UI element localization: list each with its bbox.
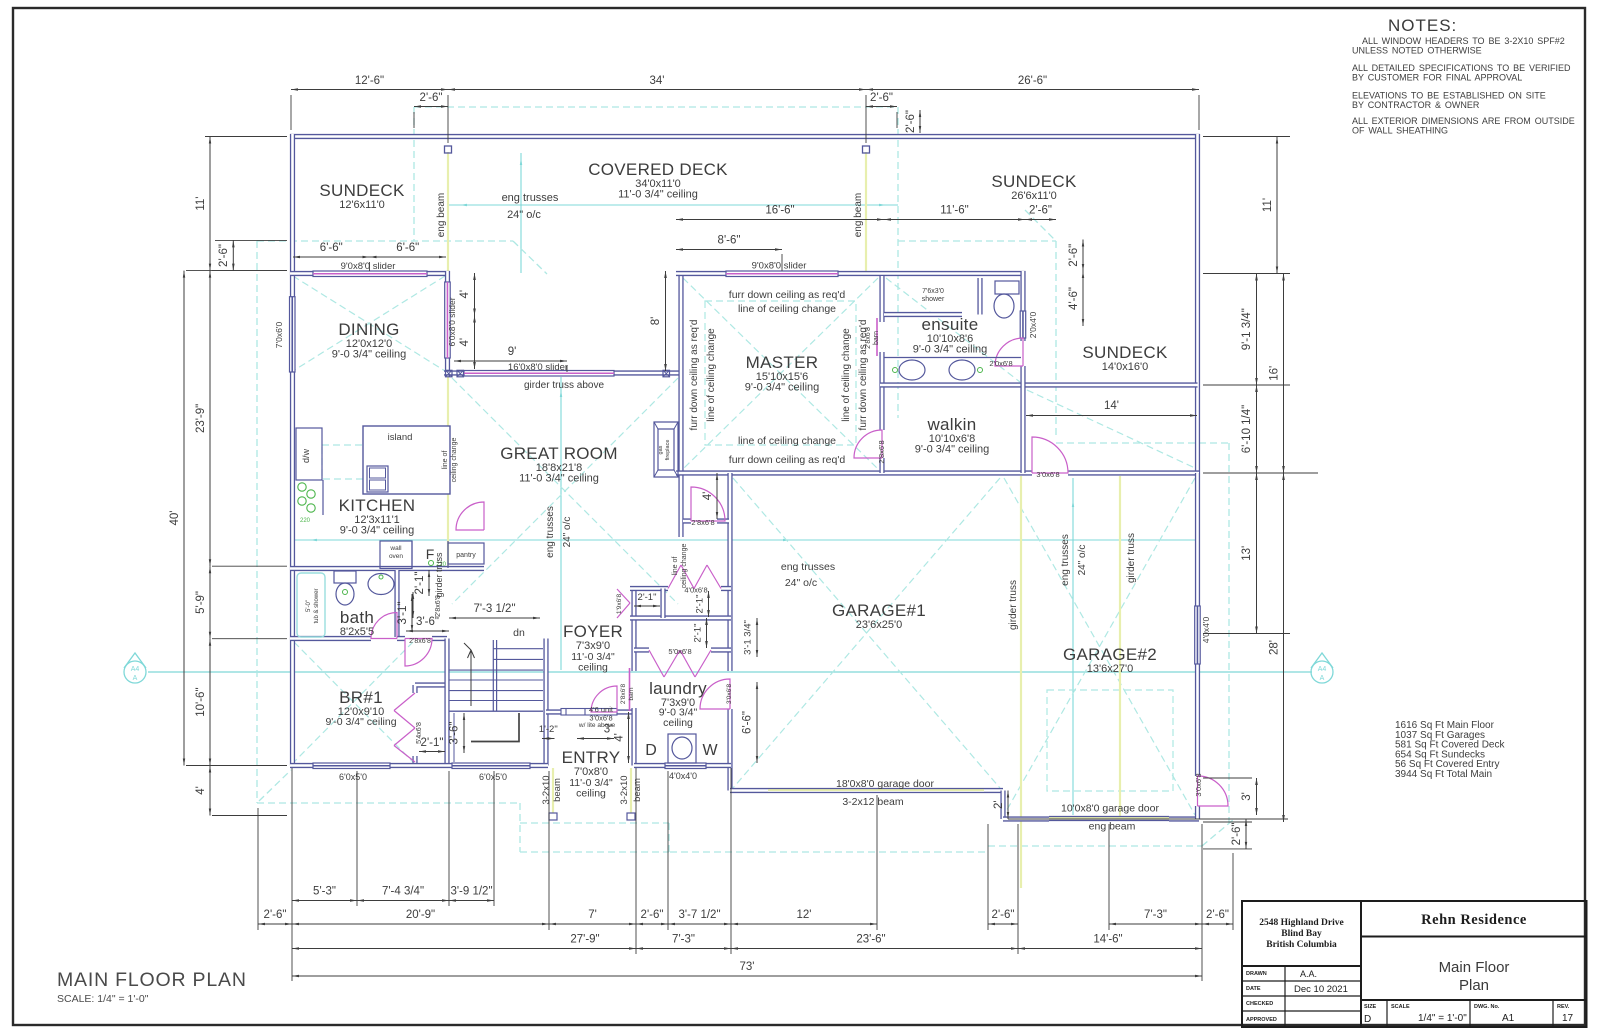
door bath [371,613,397,639]
dim 2'-6 right bottom [1245,819,1247,849]
svg-text:7'-3 1/2": 7'-3 1/2" [473,603,515,615]
svg-text:5'-9": 5'-9" [195,591,207,614]
svg-text:220: 220 [300,518,311,524]
hip diagonals great room 2 [452,378,678,604]
svg-text:2'-6": 2'-6" [1068,244,1080,267]
closet BR1 bifold doors [394,693,415,762]
svg-text:12': 12' [797,909,812,921]
dim 3' right door [1256,778,1258,815]
svg-text:W: W [702,742,718,759]
svg-text:3'-1 3/4": 3'-1 3/4" [743,620,754,655]
dim 3'-1 bath [411,594,413,632]
cabinet fridge divider [411,541,413,568]
svg-text:girder truss: girder truss [1126,533,1137,583]
svg-text:11': 11' [1262,198,1274,212]
svg-text:5'-0": 5'-0" [306,600,312,612]
svg-text:line of ceiling change: line of ceiling change [706,328,717,422]
svg-text:1'9x6'8: 1'9x6'8 [616,594,623,615]
svg-text:6'-6": 6'-6" [742,711,754,734]
wall master west [678,271,683,537]
svg-text:DINING: DINING [338,320,399,339]
svg-text:14'0x16'0: 14'0x16'0 [1102,361,1148,373]
svg-text:5'0x6'8: 5'0x6'8 [668,647,691,656]
window 6'0x8'0 slider dining east [445,282,451,358]
wall great room north [444,370,683,375]
svg-text:2'8x6'8: 2'8x6'8 [865,327,872,349]
svg-text:eng trusses: eng trusses [545,506,556,558]
svg-text:A.A.: A.A. [1300,969,1317,979]
svg-text:w/ lite above: w/ lite above [578,722,616,729]
svg-text:2'8x6'8: 2'8x6'8 [691,518,714,527]
eng beam kitchen line [447,278,449,566]
svg-text:CHECKED: CHECKED [1246,1001,1273,1007]
svg-text:girder truss: girder truss [434,552,444,598]
dim 4' entry [628,712,630,763]
svg-text:2'-6": 2'-6" [218,244,230,267]
truss line main horizontal [294,539,1196,541]
svg-text:d/w: d/w [301,449,311,464]
svg-text:9'-1 3/4": 9'-1 3/4" [1241,308,1253,350]
garage2 door lines [1049,817,1169,821]
door walkin from master [854,430,882,458]
dim 4' hall door [716,473,718,519]
eng beam sundeck1 [447,152,449,272]
svg-text:7'-3": 7'-3" [1144,909,1167,921]
post eng beam top left [445,146,452,153]
dim 9'-1 3/4 right [1256,274,1258,386]
laundry double doors 5'0x6'8 [649,650,711,677]
svg-text:3'0x6'8: 3'0x6'8 [1194,773,1203,796]
svg-text:6'-6": 6'-6" [396,242,419,254]
dim 2'-6 deck right [866,106,897,108]
svg-text:eng trusses: eng trusses [781,561,835,573]
svg-text:4': 4' [459,290,471,299]
truss line garage2 vertical [1072,478,1074,815]
svg-text:13': 13' [1241,546,1253,561]
outlet 220 green [429,561,434,566]
svg-text:3-2x10: 3-2x10 [541,775,552,804]
svg-text:9'0x8'0 slider: 9'0x8'0 slider [341,261,396,272]
svg-text:2'8x6'8: 2'8x6'8 [620,684,627,705]
svg-text:eng trusses: eng trusses [502,192,559,204]
room ensuite [913,315,988,356]
svg-text:8'-6": 8'-6" [718,235,741,247]
dim 16'-6 wing [676,219,884,221]
dim 7' [549,923,636,925]
roof overhang left horizontal [257,240,513,242]
svg-text:furr down ceiling as req'd: furr down ceiling as req'd [729,454,846,466]
svg-text:16': 16' [1269,366,1281,381]
roof overhang top-left vertical [413,107,415,241]
wall closet bottom [630,615,731,620]
svg-text:ceiling change: ceiling change [451,438,458,483]
bath toilet [334,571,356,605]
room SUNDECK3 [1082,343,1168,373]
svg-text:9'-0 3/4" ceiling: 9'-0 3/4" ceiling [915,444,990,456]
svg-text:eng trusses: eng trusses [1060,534,1071,586]
dim 11'-6 wing [884,219,1025,221]
kitchen dw box [296,428,322,480]
hip diagonals garage1 2 [733,478,1000,788]
hip diagonals garage2 [1004,478,1195,815]
garage1 door lines [768,789,984,793]
dim 6'-6 a [293,256,370,258]
roof overhang deck right vertical [897,107,899,418]
kitchen cooktop burners [298,483,315,524]
bath sink [368,574,394,595]
room SUNDECK1 [319,181,405,211]
svg-text:23'-6": 23'-6" [856,934,885,946]
wall laundry north [634,647,731,652]
svg-text:D: D [645,742,657,759]
svg-text:2'-6": 2'-6" [264,909,287,921]
stairs [449,640,543,762]
svg-text:4': 4' [614,733,626,742]
wall sundeck1 south / dining north [290,271,450,276]
svg-text:furr down ceiling as req'd: furr down ceiling as req'd [729,289,846,301]
wall bath-kitchen south [290,566,484,571]
dim 3'-6 bath [406,630,449,632]
roof overhang wing top [898,240,1056,242]
wall foyer east / laundry west [631,591,636,766]
ceiling change dashed kitchen [322,445,430,479]
svg-text:line of: line of [672,557,679,576]
island sink [367,466,388,492]
svg-text:6'0x8'0 slider: 6'0x8'0 slider [447,297,457,346]
svg-text:2'-6": 2'-6" [420,92,443,104]
dim 6'-10 1/4 right [1256,385,1258,473]
svg-text:28': 28' [1269,640,1281,655]
svg-text:BR#1: BR#1 [339,688,383,707]
svg-text:73': 73' [740,961,755,973]
svg-text:pantry: pantry [456,552,476,559]
svg-text:3'0x6'8: 3'0x6'8 [1036,470,1059,479]
svg-text:girder truss above: girder truss above [524,380,604,391]
room FOYER [563,622,623,652]
wall stair east / entry west [543,639,548,766]
dim 23'-9 left [209,271,211,567]
dim 7'-3 1/2 stair [449,617,540,619]
svg-text:A4: A4 [131,666,140,673]
svg-text:Plan: Plan [1459,977,1489,994]
dim 4'-6 sundeck3 [1082,271,1084,326]
roof hip sundeck1 corner [513,241,547,274]
roof overhang top [414,106,897,108]
svg-text:2'-1": 2'-1" [414,572,426,595]
exterior wall top [290,134,1200,139]
door garage2 exterior [1198,776,1229,806]
svg-text:ceiling: ceiling [576,788,606,800]
dim 3'-1 3/4 laundry [756,618,758,657]
dim 7'-3 b [1109,923,1202,925]
room COVERED DECK [588,160,728,201]
cabinet wall oven [380,541,412,569]
svg-text:GARAGE#2: GARAGE#2 [1063,645,1157,664]
svg-text:3-2x12 beam: 3-2x12 beam [842,796,904,808]
door laundry-garage [700,679,730,709]
svg-text:5'4x6'8: 5'4x6'8 [416,722,423,744]
wall stair west [444,639,449,766]
dim 2'-6 wing [1025,219,1056,221]
girder beam garage1 [1020,476,1022,888]
roof overhang garage1 bottom [670,851,988,853]
svg-text:laundry: laundry [649,679,707,698]
room SUNDECK2 [991,172,1077,202]
svg-text:bath: bath [340,608,374,627]
dim 2' garage step [1007,791,1009,820]
hip diagonals BR1 2 [294,642,413,762]
window 9'0x8'0 slider dining [313,271,427,277]
roof hip garage SE [1202,820,1233,846]
entry door unit [561,709,617,716]
post entry beam right [627,813,635,820]
hip diagonals BR1 [294,642,413,762]
hip diagonal sundeck3 [1027,390,1195,468]
svg-text:eng beam: eng beam [853,193,864,237]
door BR1 [405,639,432,667]
closet1 door X [617,589,630,618]
wall garage west [727,473,732,791]
svg-text:ensuite: ensuite [922,315,979,334]
hip diagonals garage1 [733,478,1000,788]
svg-text:2'-6": 2'-6" [992,909,1015,921]
kitchen counter line [322,480,324,515]
wall bath east [394,570,399,637]
svg-text:10'-6": 10'-6" [195,687,207,716]
wall shower enclosure [884,278,980,315]
svg-text:24" o/c: 24" o/c [507,209,541,221]
room DINING [332,320,407,361]
ensuite toilet [994,281,1019,318]
door ensuite-sundeck [995,338,1023,366]
svg-text:MAIN FLOOR PLAN: MAIN FLOOR PLAN [57,969,247,991]
hip diagonals dining 2 [293,276,445,371]
post hatch great room slider W1 [446,370,453,377]
dim 27'-9 [292,948,636,950]
svg-text:7'0x6'0: 7'0x6'0 [274,322,284,349]
dim 12'-6 top [291,89,448,91]
svg-text:gas: gas [658,445,664,454]
gas fireplace [654,422,678,477]
svg-text:9': 9' [508,346,517,358]
svg-text:20'-9": 20'-9" [406,909,435,921]
hip diagonals great room [452,378,678,604]
wall BR1 closet top [415,685,447,693]
svg-text:2'-6": 2'-6" [1231,822,1243,845]
room MASTER [745,353,820,394]
room walkin [915,415,990,456]
dim 34' top [448,89,866,91]
girder beam garage2 [1119,476,1121,816]
svg-text:ALL DETAILED SPECIFICATIONS: ALL DETAILED SPECIFICATIONS TO BE VERIFI… [1352,63,1571,73]
roof overhang sundeck bottom [1056,442,1229,444]
svg-text:24" o/c: 24" o/c [562,517,573,548]
svg-text:23'6x25'0: 23'6x25'0 [856,619,902,631]
wall laundry-BR1 south base [290,763,731,768]
dim 12' [731,923,877,925]
notes body [1352,36,1575,136]
svg-text:12'-6": 12'-6" [355,75,384,87]
door walkin-garage 3'0x6'8 [1032,437,1068,473]
room bath [340,608,374,638]
dim 23'-6 [731,948,1018,950]
svg-text:4'0x4'0: 4'0x4'0 [669,771,697,781]
roof overhang right vertical [1228,443,1230,823]
wall closet top [630,586,731,591]
dim 2'-6 left [232,240,234,270]
wall hall door jambs [683,518,729,523]
beam garage1 door [768,789,984,791]
window 2'0x4'0 ensuite east [1020,311,1025,338]
svg-text:eng beam: eng beam [1089,821,1136,833]
dim 26'-6 top [866,89,1199,91]
eng beam entry left [552,768,554,813]
svg-text:11'-0 3/4" ceiling: 11'-0 3/4" ceiling [618,189,698,201]
svg-text:2'0x4'0: 2'0x4'0 [1028,312,1038,339]
wall garage step [1000,791,1005,820]
svg-text:ALL WINDOW HEADERS TO BE: ALL WINDOW HEADERS TO BE 3-2X10 SPF#2 [1362,36,1565,46]
entry porch roof box [520,803,669,852]
svg-text:2'-1": 2'-1" [638,592,657,603]
svg-text:34': 34' [650,75,665,87]
dim 2'-1 bath top [428,570,430,596]
svg-text:3': 3' [1241,792,1253,801]
svg-text:eng beam: eng beam [436,193,447,237]
svg-text:2'-6": 2'-6" [870,92,893,104]
svg-text:REV.: REV. [1557,1004,1570,1010]
svg-text:4'0x4'0: 4'0x4'0 [1201,617,1211,644]
svg-text:island: island [388,432,413,443]
dim 28' right [1283,473,1285,822]
svg-text:2': 2' [993,800,1005,809]
roof hip wing NE [1025,210,1056,241]
svg-text:GREAT ROOM: GREAT ROOM [500,444,618,463]
door pantry [456,502,484,530]
room ENTRY [562,748,621,778]
dim 8' master left [665,271,667,371]
svg-text:4': 4' [702,492,714,501]
svg-text:18'0x8'0 garage door: 18'0x8'0 garage door [836,778,935,790]
window 16'0x8'0 slider great room [464,371,614,377]
svg-text:SUNDECK: SUNDECK [319,181,405,200]
dim 7'-4 3/4 [357,900,449,902]
dim 73' [292,975,1202,977]
exterior wall left [290,134,295,766]
wall ensuite south / walkin north [880,382,1026,387]
room GREAT ROOM [500,444,618,485]
wall wing north [676,271,1026,276]
svg-text:girder truss: girder truss [1008,580,1019,630]
section marker A4 right [1311,653,1333,683]
wall wing south / garage north [676,470,1199,475]
svg-text:9'-0 3/4" ceiling: 9'-0 3/4" ceiling [332,349,407,361]
door entry swing [591,686,617,712]
hip diagonals dining [293,276,445,371]
svg-text:7'-4 3/4": 7'-4 3/4" [382,886,424,898]
dim 2'-6 b1 [258,923,292,925]
dim 2'-1 closet2 [708,591,710,617]
beam garage2 door [1049,817,1169,819]
svg-text:10'0x8'0 garage door: 10'0x8'0 garage door [1061,803,1160,815]
roof overhang sundeck right vertical [1055,241,1057,435]
post hatch great room slider W2 [457,370,464,377]
svg-text:1/4" = 1'-0": 1/4" = 1'-0" [1418,1013,1467,1024]
window 7'0x6'0 left wall [290,297,296,372]
svg-text:FOYER: FOYER [563,622,623,641]
svg-text:3'0x6'8: 3'0x6'8 [726,684,733,705]
window 4'0x4'0 laundry [665,763,706,769]
room KITCHEN [339,496,416,537]
svg-text:GARAGE#1: GARAGE#1 [832,601,926,620]
truss line deck vertical [520,153,522,273]
ensuite vanity counter [884,357,1021,359]
svg-text:5'-3": 5'-3" [313,886,336,898]
svg-text:Dec 10 2021: Dec 10 2021 [1294,984,1348,995]
dim 2'-1 BR1 closet [419,751,445,753]
svg-text:beam: beam [552,778,563,802]
svg-text:A4: A4 [1318,666,1327,673]
wall ensuite east [1020,271,1025,473]
wall BR1 closet stub [412,756,417,766]
svg-text:27'-9": 27'-9" [570,934,599,946]
svg-text:3'-1": 3'-1" [397,602,409,625]
svg-text:7'-3": 7'-3" [672,934,695,946]
eng beam entry right [630,768,632,813]
hip diagonal ensuite [886,278,1020,382]
dim 8'-6 master [676,249,782,251]
svg-text:barn: barn [628,687,635,700]
wall dining east [445,271,450,377]
dim 7'-3 c [636,948,731,950]
svg-text:DATE: DATE [1246,986,1261,992]
svg-text:6'-10 1/4": 6'-10 1/4" [1241,405,1253,453]
dim 11' right [1276,137,1278,274]
wall entry front [546,709,635,714]
room BR#1 [338,688,384,718]
eng beam deck [865,152,867,272]
svg-text:16'-6": 16'-6" [765,205,794,217]
dim 3'-6 landing [463,713,465,753]
hip diagonals garage2 2 [1004,478,1195,815]
kitchen island [363,426,450,494]
svg-text:3944 Sq Ft Total Main: 3944 Sq Ft Total Main [1395,769,1492,780]
svg-text:2'-6": 2'-6" [1029,205,1052,217]
svg-text:F: F [426,546,435,562]
post entry beam left [549,813,557,820]
svg-text:OF WALL SHEATHING: OF WALL SHEATHING [1352,126,1448,136]
window 2'0x4'0 garage2 east [1195,606,1201,664]
svg-text:2'0x6'8: 2'0x6'8 [989,359,1012,368]
dim 3'-9 1/2 [449,900,494,902]
svg-text:6'-6": 6'-6" [320,242,343,254]
roof overhang bottom-left [257,802,520,804]
svg-text:2'8x6'8: 2'8x6'8 [877,440,886,463]
svg-text:4': 4' [459,338,471,347]
svg-text:NOTES:: NOTES: [1388,16,1457,35]
svg-text:line of ceiling change: line of ceiling change [841,328,852,422]
svg-text:2'-1": 2'-1" [695,595,706,614]
svg-text:fireplace: fireplace [665,440,671,461]
ceiling change dashed master [705,301,856,445]
svg-text:9'-0 3/4" ceiling: 9'-0 3/4" ceiling [340,525,415,537]
truss line deck [448,204,898,206]
washer box [668,734,696,763]
svg-text:Blind Bay: Blind Bay [1281,929,1322,939]
svg-text:9'-0 3/4" ceiling: 9'-0 3/4" ceiling [913,344,988,356]
svg-text:16'0x8'0 slider: 16'0x8'0 slider [508,362,568,373]
svg-text:12'6x11'0: 12'6x11'0 [339,199,385,211]
extension lines vertical [258,95,1233,981]
